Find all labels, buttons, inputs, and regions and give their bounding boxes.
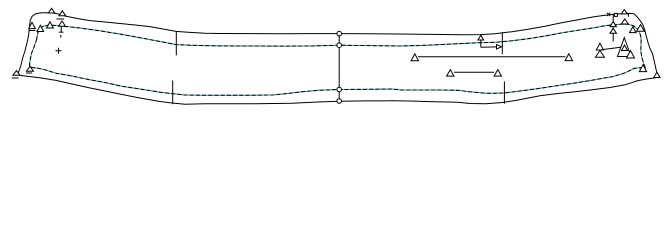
marker triangle L2 bbox=[37, 25, 44, 31]
wire tick top right x502 bbox=[501, 32, 503, 54]
marker triangle S2 stacked bbox=[595, 51, 604, 58]
marker triangle U1 on black top bbox=[621, 10, 627, 14]
node circle bottom inner bbox=[337, 87, 342, 92]
marker triangle line2 right bbox=[494, 70, 501, 77]
marker triangle L1 bbox=[29, 22, 36, 28]
node circle bottom outer bbox=[337, 99, 342, 104]
wire centerline vertical bbox=[338, 32, 340, 102]
marker triangle T1 on top line bbox=[48, 8, 54, 13]
marker triangle side lower bbox=[627, 51, 635, 59]
wire tick bottom right x504 bbox=[503, 82, 505, 104]
wire tick bottom left x173 bbox=[172, 81, 174, 105]
wire small tick x628 bbox=[627, 13, 629, 16]
wire outer bumper contour bbox=[17, 13, 658, 105]
marker triangle W1 on teal corner bbox=[630, 27, 637, 33]
node circle top inner bbox=[337, 43, 342, 48]
wire hatch under T2 bbox=[57, 18, 65, 20]
wire vertical x613 bbox=[612, 15, 614, 42]
wire inner offset contour black dashes bbox=[30, 24, 646, 95]
wire hatch under Tb bbox=[26, 72, 32, 74]
marker square on top line bbox=[614, 13, 617, 16]
marker x-tick on top line right bbox=[607, 13, 610, 16]
leader up-arrow at x481 bbox=[480, 36, 482, 48]
node circle top outer bbox=[337, 31, 342, 36]
wire leader from stack bbox=[602, 47, 621, 50]
marker triangle Ta at bottom corner bbox=[13, 71, 20, 76]
marker triangle on vertical upper bbox=[610, 22, 616, 27]
marker triangle Tb on bottom teal bbox=[27, 66, 34, 71]
marker triangle T3 on teal bbox=[59, 21, 66, 26]
marker triangle line2 left bbox=[447, 70, 454, 77]
wire pin below T3 bbox=[60, 27, 62, 33]
marker triangle big outline bbox=[618, 38, 632, 57]
marker triangle Vb at bottom right corner bbox=[654, 72, 660, 77]
marker triangle Va on bottom teal right bbox=[639, 65, 646, 72]
marker triangle T2 on top line bbox=[59, 11, 66, 16]
marker triangle W2 on black corner bbox=[637, 25, 645, 32]
wire hatch under L1 bbox=[29, 30, 36, 32]
marker triangle small inner bbox=[622, 45, 628, 51]
marker plus cross left bbox=[56, 50, 62, 52]
wire inner offset contour teal solid bbox=[30, 24, 646, 95]
marker triangle U2 on teal top bbox=[621, 19, 628, 24]
wire leader horizontal to right-arrow bbox=[481, 46, 502, 49]
wire dim line 1 with end triangles bbox=[418, 56, 566, 58]
wire tick top left x176 bbox=[175, 31, 177, 55]
marker triangle line1 left bbox=[411, 54, 418, 61]
wire dim line 2 with end triangles bbox=[454, 71, 494, 73]
marker triangle line1 right bbox=[565, 54, 572, 61]
marker triangle L3 bbox=[47, 22, 54, 28]
marker triangle S1 stacked bbox=[596, 43, 603, 50]
wire hatch under Ta bbox=[12, 77, 19, 79]
marker triangle on vertical lower bbox=[610, 28, 616, 33]
